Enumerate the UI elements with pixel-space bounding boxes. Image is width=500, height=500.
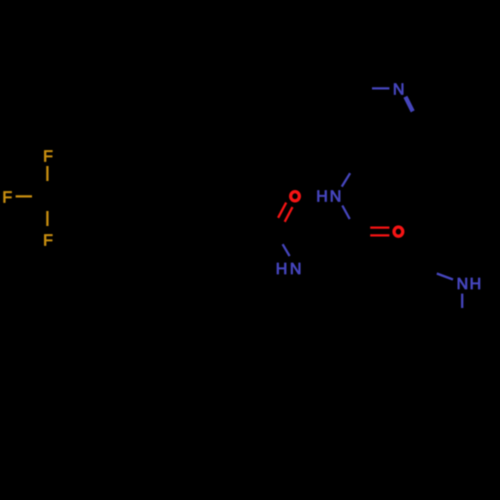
bond N5-C (vertical below) <box>461 294 463 308</box>
svg-text:N: N <box>393 82 405 99</box>
double bond C1=O1 line a <box>278 203 286 218</box>
bond N4-C2 downward <box>342 206 349 220</box>
bond C-F1 (top fluorine, vertical) <box>46 166 48 181</box>
oxygen O2 label <box>394 227 403 236</box>
double bond C1=O1 line b <box>285 207 293 222</box>
aromatic double bond N3=C line b <box>406 96 413 111</box>
bond C-F3 (bottom fluorine, vertical) <box>46 211 48 226</box>
bond N4-C(pyridine ring) upward <box>342 173 350 186</box>
svg-text:H: H <box>316 189 328 206</box>
bond C1-N2 (amide) <box>283 244 290 256</box>
oxygen O1 label <box>291 192 300 201</box>
svg-text:N: N <box>457 276 469 293</box>
double bond C2=O2 line a <box>370 226 389 228</box>
svg-text:F: F <box>43 233 53 250</box>
svg-text:N: N <box>330 189 342 206</box>
aromatic double bond N3=C line a <box>405 97 412 112</box>
svg-text:H: H <box>276 261 288 278</box>
svg-text:H: H <box>470 276 482 293</box>
svg-text:N: N <box>290 261 302 278</box>
bond C-N5 (up-left of NH) <box>437 274 453 280</box>
bond C-N3 (pyridine, left horizontal) <box>372 87 389 89</box>
double bond C2=O2 line b <box>370 234 389 236</box>
bond C-F2 (left fluorine, horizontal) <box>16 195 32 197</box>
svg-text:F: F <box>43 149 53 166</box>
svg-text:F: F <box>2 190 12 207</box>
